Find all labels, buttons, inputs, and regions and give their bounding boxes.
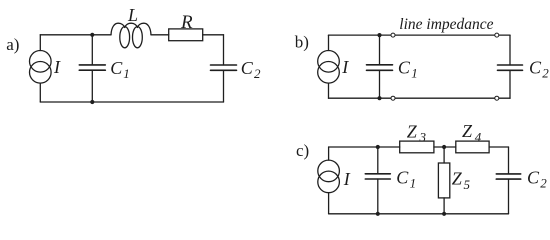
svg-text:a): a): [6, 35, 19, 54]
svg-text:2: 2: [540, 176, 547, 191]
label C1 (circuit a): [110, 58, 130, 81]
resistor R (circuit a): [169, 29, 203, 41]
label I (circuit c): [343, 169, 351, 189]
wire right vertical upper (a): [223, 35, 225, 65]
svg-text:C: C: [529, 58, 542, 78]
capacitor C1 (circuit a): [79, 65, 105, 70]
circuit c) label: [296, 141, 309, 160]
label C1 (circuit c): [396, 167, 416, 190]
wire right vertical upper (b): [509, 35, 511, 65]
label L: [127, 5, 138, 25]
wire bottom rail (a): [40, 101, 223, 103]
capacitor C1 (circuit c): [365, 174, 390, 179]
terminal open circle top left (b): [391, 33, 395, 37]
wire R to right corner (a): [203, 34, 224, 36]
current source I2 (circuit b): [318, 51, 340, 84]
wire source top stub (b): [328, 35, 330, 50]
svg-text:c): c): [296, 141, 309, 160]
label R: [180, 12, 193, 33]
svg-text:1: 1: [123, 66, 130, 81]
svg-text:b): b): [295, 33, 309, 52]
impedance Z3 (circuit c): [400, 141, 434, 153]
node junction top of C1 (a): [90, 33, 94, 37]
node junction bottom of Z5 (c): [442, 212, 446, 216]
svg-text:5: 5: [464, 177, 471, 192]
node junction bottom of C1 (c): [376, 212, 380, 216]
capacitor C2 (circuit c): [496, 174, 520, 179]
wire top rail left (c): [329, 146, 400, 148]
label line impedance: [399, 16, 493, 33]
wire source bottom stub (a): [39, 83, 41, 102]
wire source bottom stub (b): [328, 83, 330, 98]
impedance Z5 (circuit c): [438, 163, 449, 198]
label Z5: [452, 168, 471, 192]
wire right vertical upper (c): [508, 147, 510, 174]
svg-text:C: C: [241, 58, 254, 78]
wire C1 lower stub (b): [379, 70, 381, 98]
svg-text:Z: Z: [407, 121, 418, 141]
wire source top stub (c): [328, 147, 330, 160]
label C2 (circuit a): [241, 58, 261, 81]
label Z4: [462, 121, 482, 144]
wire top rail left (a): [40, 34, 111, 36]
svg-text:line impedance: line impedance: [399, 16, 493, 33]
node junction bottom of C1 (a): [90, 100, 94, 104]
wire Z3 to Z4 (c): [434, 146, 456, 148]
svg-text:I: I: [53, 57, 61, 77]
svg-text:I: I: [341, 57, 349, 77]
svg-text:2: 2: [542, 66, 549, 81]
node junction top of C1 (c): [376, 145, 380, 149]
wire right vertical lower (a): [223, 70, 225, 102]
label C2 (circuit c): [527, 168, 547, 191]
label C1 (circuit b): [398, 57, 418, 80]
circuit b) label: [295, 33, 309, 52]
node junction bottom of C1 (b): [377, 96, 381, 100]
label C2 (circuit b): [529, 58, 549, 81]
wire right vertical lower (b): [509, 70, 511, 98]
wire C1 lower stub (a): [91, 70, 93, 102]
capacitor C2 (circuit a): [211, 65, 237, 70]
svg-text:C: C: [396, 167, 409, 187]
capacitor C1 (circuit b): [367, 65, 393, 71]
wire C1 upper stub (a): [91, 35, 93, 65]
wire top rail (b): [329, 34, 511, 36]
node junction top of C1 (b): [377, 33, 381, 37]
label I (circuit a): [53, 57, 61, 77]
current source I1 (circuit a): [30, 51, 52, 84]
wire bottom rail (b): [329, 97, 511, 99]
wire source top stub (a): [39, 35, 41, 51]
svg-text:1: 1: [411, 65, 418, 80]
svg-text:C: C: [398, 57, 411, 77]
svg-text:2: 2: [254, 66, 261, 81]
inductor L (circuit a): [111, 23, 151, 48]
terminal open circle top right (b): [495, 33, 499, 37]
wire bottom rail (c): [329, 213, 509, 215]
svg-text:R: R: [180, 12, 193, 33]
wire C1 upper stub (b): [379, 35, 381, 65]
wire C1 upper stub (c): [377, 147, 379, 174]
node junction top of Z5 (c): [442, 145, 446, 149]
svg-text:C: C: [110, 58, 123, 78]
current source I3 (circuit c): [318, 160, 340, 193]
svg-text:L: L: [127, 5, 138, 25]
svg-text:3: 3: [419, 130, 427, 145]
wire L to R (a): [151, 34, 169, 36]
svg-text:I: I: [343, 169, 351, 189]
terminal open circle bottom right (b): [495, 96, 499, 100]
wire C1 lower stub (c): [377, 179, 379, 214]
svg-text:Z: Z: [452, 168, 463, 188]
circuit a) label: [6, 35, 19, 54]
svg-text:C: C: [527, 168, 540, 188]
wire Z4 to right corner (c): [489, 146, 508, 148]
terminal open circle bottom left (b): [391, 96, 395, 100]
label I (circuit b): [341, 57, 349, 77]
wire source bottom stub (c): [328, 193, 330, 214]
svg-text:1: 1: [410, 176, 417, 191]
wire right vertical lower (c): [508, 179, 510, 214]
capacitor C2 (circuit b): [498, 65, 523, 70]
svg-text:4: 4: [475, 130, 482, 145]
impedance Z4 (circuit c): [456, 141, 489, 153]
svg-text:Z: Z: [462, 121, 473, 141]
label Z3: [407, 121, 427, 144]
wire Z5 upper stub (c): [443, 147, 445, 163]
wire Z5 lower stub (c): [443, 198, 445, 214]
